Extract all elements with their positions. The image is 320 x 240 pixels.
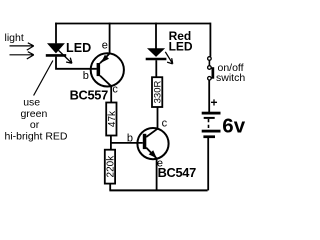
battery plate 1 long xyxy=(202,112,221,115)
svg-text:b: b xyxy=(127,133,133,145)
svg-text:c: c xyxy=(162,118,168,130)
svg-text:BC547: BC547 xyxy=(158,165,197,180)
svg-text:47k: 47k xyxy=(107,110,118,127)
resistor 330R body xyxy=(152,77,162,107)
light arrow 2 xyxy=(10,52,34,59)
wire BC557 emitter to rail xyxy=(109,23,111,54)
battery plate 3 long xyxy=(202,130,221,133)
svg-text:switch: switch xyxy=(216,72,245,84)
battery plate 4 short xyxy=(203,135,215,138)
op BC557 circle xyxy=(91,53,124,86)
wire 220k to bottom rail xyxy=(109,184,111,191)
svg-text:LED: LED xyxy=(66,41,91,55)
wire LED1 to BC557 base xyxy=(56,57,97,69)
svg-text:LED: LED xyxy=(169,40,193,54)
BC547 collector line xyxy=(146,129,157,137)
wire 330R to BC547 collector xyxy=(157,107,159,129)
wire right branch to switch xyxy=(209,23,211,57)
svg-text:c: c xyxy=(112,83,118,95)
svg-text:+: + xyxy=(211,95,218,109)
wire bottom rail xyxy=(109,189,207,191)
wire switch middle xyxy=(208,60,210,65)
battery plate 2 short xyxy=(204,117,215,119)
BC547 emitter arrow NPN xyxy=(149,150,157,158)
leader line to use-green text xyxy=(34,61,53,96)
switch terminal circle 1 xyxy=(208,57,212,61)
BC557 emitter arrow PNP xyxy=(101,55,109,63)
svg-text:light: light xyxy=(5,32,24,44)
LED D2 cathode bar xyxy=(146,58,167,61)
LED D2 red triangle xyxy=(147,48,165,57)
wire BC547 emitter to bottom rail xyxy=(156,158,158,190)
LED D2 emission arrow xyxy=(165,52,172,64)
wire switch to battery xyxy=(208,80,210,112)
wire BC557 collector to 47k xyxy=(110,86,112,103)
wire 47k to 220k junction xyxy=(110,136,112,150)
LED D1 emission arrow xyxy=(59,50,72,63)
BC557 collector line xyxy=(100,76,111,87)
wire LED1 branch top xyxy=(55,23,57,44)
battery dashed link xyxy=(208,119,210,130)
svg-text:BC557: BC557 xyxy=(70,87,109,102)
BC547 base bar xyxy=(143,134,147,149)
svg-text:e: e xyxy=(102,40,108,52)
svg-text:330R: 330R xyxy=(153,81,164,104)
resistor 47k body xyxy=(106,103,116,136)
BC557 base bar xyxy=(97,63,101,76)
svg-text:220k: 220k xyxy=(105,155,116,178)
wire red LED branch top xyxy=(155,23,157,49)
svg-text:6v: 6v xyxy=(222,114,245,137)
switch lever bar xyxy=(212,67,215,79)
svg-text:green: green xyxy=(20,108,47,120)
wire LED D2 to 330R xyxy=(155,60,157,77)
wire battery to bottom rail xyxy=(207,138,209,190)
light arrow 1 xyxy=(10,43,34,50)
svg-text:use: use xyxy=(23,96,40,108)
switch terminal circle 2 xyxy=(208,66,212,70)
wire junction to BC547 base xyxy=(111,142,143,144)
svg-text:hi-bright RED: hi-bright RED xyxy=(4,130,67,142)
resistor 220k body xyxy=(105,150,115,184)
LED D1 sensor triangle xyxy=(47,43,65,53)
op BC547 circle xyxy=(137,128,168,159)
switch terminal circle 3 xyxy=(208,77,212,81)
svg-text:b: b xyxy=(83,70,89,82)
wire top rail xyxy=(55,23,210,25)
BC547 emitter line xyxy=(146,148,156,159)
BC557 emitter line xyxy=(100,53,110,63)
LED D1 cathode bar xyxy=(46,54,66,57)
svg-text:or: or xyxy=(30,119,40,131)
